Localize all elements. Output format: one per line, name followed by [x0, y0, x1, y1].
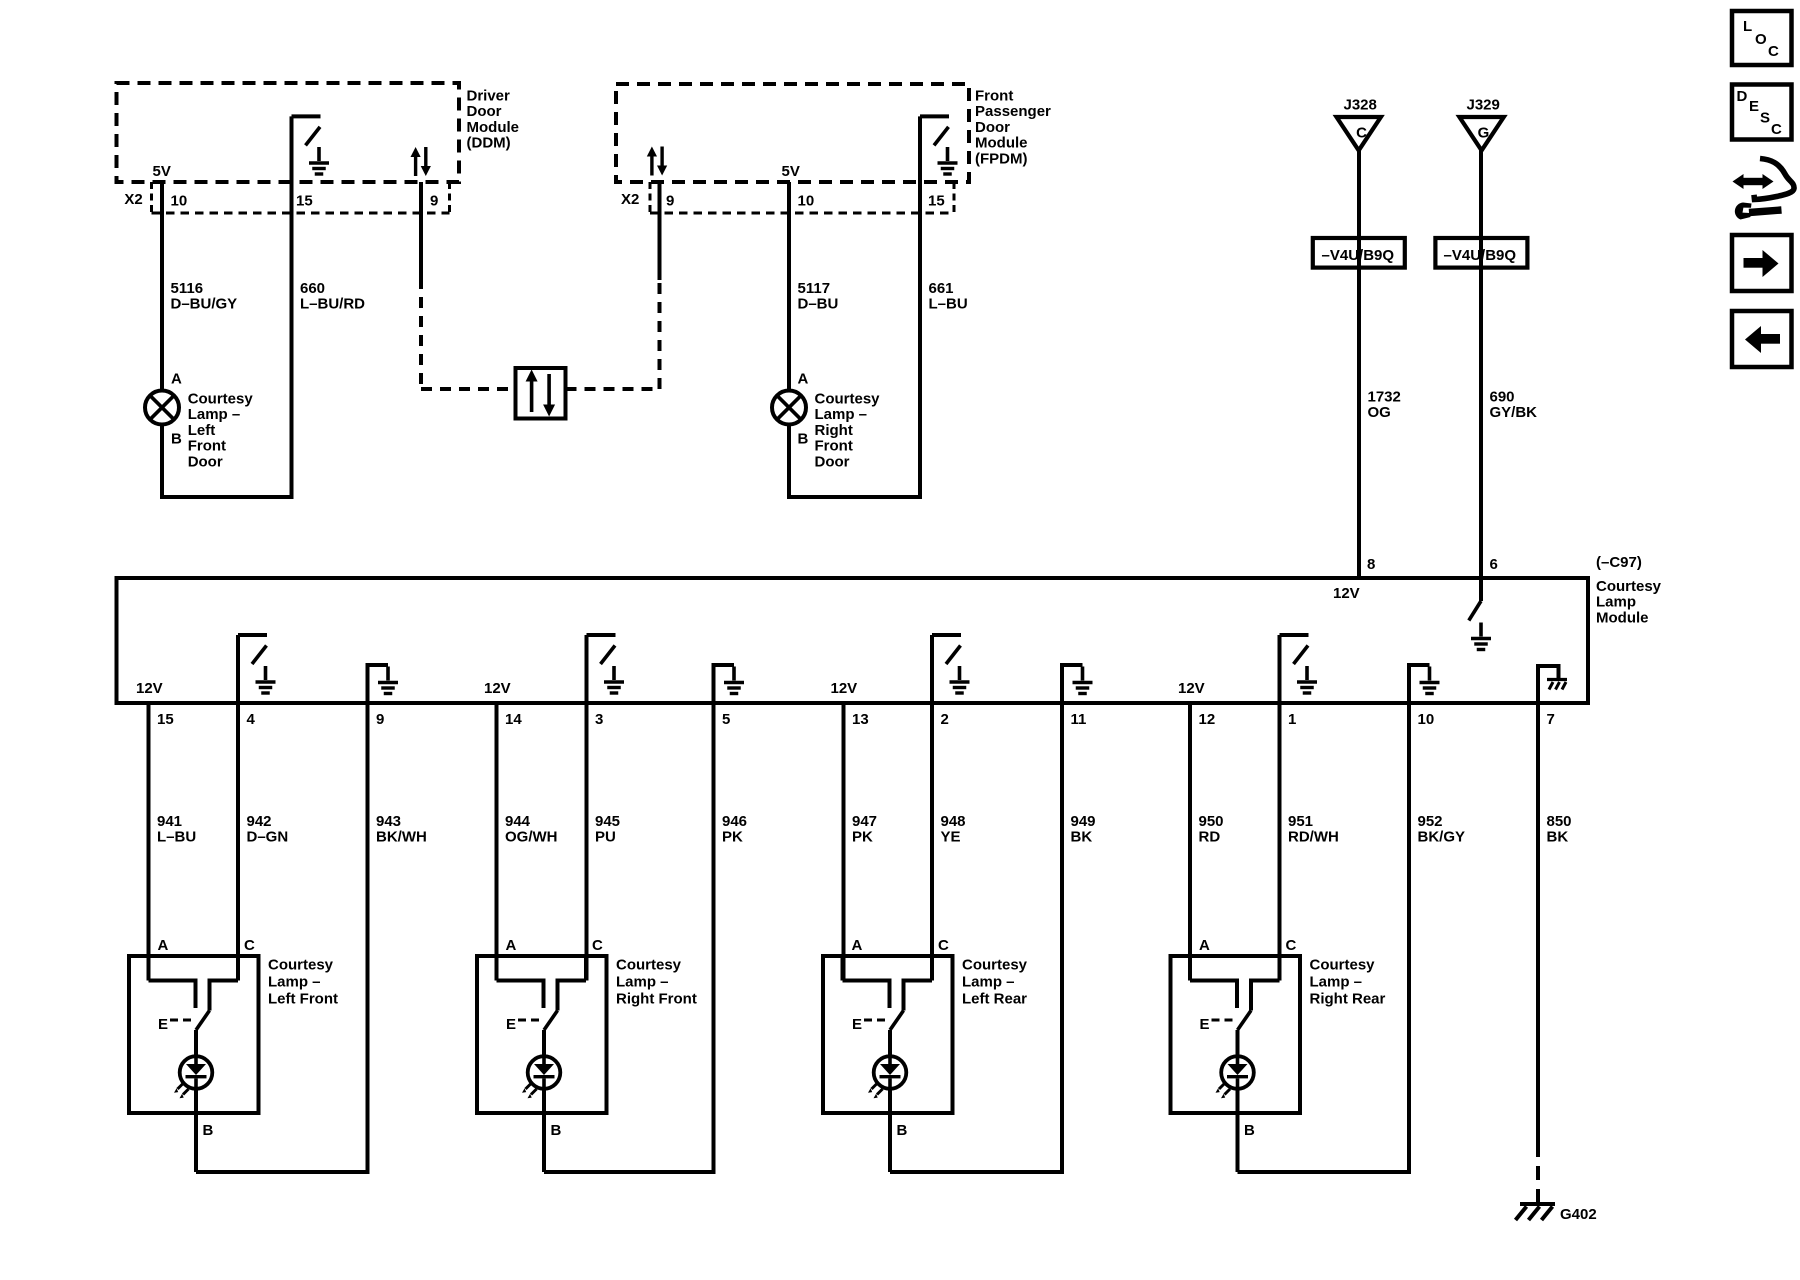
- svg-text:950RD: 950RD: [1199, 813, 1224, 846]
- courtesy lamp - left rear assembly (box, switch, LED): [823, 956, 953, 1172]
- svg-text:850BK: 850BK: [1547, 813, 1572, 846]
- svg-text:G: G: [1478, 125, 1490, 142]
- wire 948 YE from module pin: [930, 703, 934, 981]
- svg-text:9: 9: [666, 193, 674, 210]
- svg-text:C: C: [938, 937, 949, 954]
- svg-text:CourtesyLamp –LeftFrontDoor: CourtesyLamp –LeftFrontDoor: [188, 391, 254, 471]
- svg-text:10: 10: [171, 193, 188, 210]
- svg-text:CourtesyLamp –Right Rear: CourtesyLamp –Right Rear: [1310, 957, 1386, 1008]
- svg-text:15: 15: [157, 711, 174, 728]
- module FPDM (Front Passenger Door Module) dashed box: [616, 84, 969, 182]
- wire from J329 down to module pin 6: [1479, 150, 1483, 601]
- wire 850 BK from module pin 7 to G402: [1536, 703, 1540, 1143]
- switch to ground inside module at pin 1: [1280, 635, 1318, 703]
- courtesy lamp - right front assembly (box, switch, LED): [477, 956, 607, 1172]
- icon back arrow button: [1732, 311, 1792, 367]
- svg-text:941L–BU: 941L–BU: [157, 813, 196, 846]
- svg-text:CourtesyLamp –Left Rear: CourtesyLamp –Left Rear: [962, 957, 1028, 1008]
- svg-text:A: A: [798, 371, 809, 388]
- svg-text:5117D–BU: 5117D–BU: [798, 280, 839, 313]
- svg-text:10: 10: [798, 193, 815, 210]
- svg-text:8: 8: [1367, 556, 1375, 573]
- ground inside module at pin 5: [714, 665, 745, 703]
- svg-text:5: 5: [722, 711, 730, 728]
- svg-text:S: S: [1760, 110, 1770, 127]
- svg-text:946PK: 946PK: [722, 813, 747, 846]
- ground inside module at pin 9: [368, 665, 399, 703]
- up/down arrow box (window switch illumination node): [516, 368, 566, 419]
- up/down arrows inside DDM (pin 9 logic signal): [411, 147, 431, 176]
- svg-text:943BK/WH: 943BK/WH: [376, 813, 427, 846]
- up/down arrows inside FPDM (pin 9 logic signal): [647, 147, 667, 176]
- svg-text:661L–BU: 661L–BU: [929, 280, 968, 313]
- svg-text:952BK/GY: 952BK/GY: [1418, 813, 1466, 846]
- svg-text:7: 7: [1547, 711, 1555, 728]
- icon LOC button: [1732, 11, 1792, 65]
- wire 947 PK from module pin: [842, 703, 846, 981]
- svg-text:13: 13: [852, 711, 869, 728]
- ground G402 symbol: [1516, 1204, 1556, 1220]
- connector X2 of DDM (dashed bracket): [152, 182, 450, 214]
- wire 941 L-BU from module pin: [147, 703, 151, 981]
- svg-text:B: B: [1244, 1122, 1255, 1139]
- svg-text:11: 11: [1071, 711, 1087, 728]
- svg-text:690GY/BK: 690GY/BK: [1490, 389, 1538, 422]
- wire 950 RD from module pin: [1188, 703, 1192, 981]
- connector J328 triangle C: [1337, 117, 1381, 150]
- wire from lamp B up via 661 L-BU to FPDM pin 15: [789, 116, 920, 497]
- wire 5117 D-BU: FPDM pin 10 down to lamp A: [787, 182, 791, 391]
- svg-text:3: 3: [595, 711, 603, 728]
- svg-text:947PK: 947PK: [852, 813, 877, 846]
- connector X2 of FPDM (dashed bracket): [650, 182, 954, 214]
- connector J329 triangle G: [1459, 117, 1503, 150]
- svg-text:O: O: [1755, 31, 1767, 48]
- wire lamp left front B to ground wire: [196, 703, 368, 1172]
- ground inside module at pin 11: [1062, 665, 1093, 703]
- svg-text:951RD/WH: 951RD/WH: [1288, 813, 1339, 846]
- chassis ground inside module at pin 7: [1538, 666, 1567, 703]
- wire 952 BK/GY from module pin: [1407, 703, 1411, 1172]
- svg-text:J328: J328: [1344, 97, 1377, 114]
- wire 5116 D-BU/GY: DDM pin 10 down to lamp A: [160, 182, 164, 391]
- svg-text:L: L: [1743, 18, 1752, 35]
- svg-text:14: 14: [505, 711, 522, 728]
- wire to FPDM pin 9 (dashed then solid): [566, 387, 660, 391]
- svg-text:942D–GN: 942D–GN: [247, 813, 289, 846]
- svg-text:–V4U/B9Q: –V4U/B9Q: [1322, 247, 1395, 264]
- svg-text:B: B: [551, 1122, 562, 1139]
- svg-text:A: A: [171, 371, 182, 388]
- option box -V4U/B9Q (left): [1313, 238, 1405, 268]
- svg-text:9: 9: [376, 711, 384, 728]
- svg-text:B: B: [171, 431, 182, 448]
- svg-text:B: B: [897, 1122, 908, 1139]
- wire 946 PK from module pin: [712, 703, 716, 1172]
- svg-text:1: 1: [1288, 711, 1296, 728]
- svg-text:5116D–BU/GY: 5116D–BU/GY: [171, 280, 238, 313]
- svg-text:C: C: [1286, 937, 1297, 954]
- svg-text:5V: 5V: [153, 163, 171, 180]
- door switch to ground inside DDM: [292, 116, 330, 174]
- svg-text:E: E: [1749, 98, 1759, 115]
- switch to ground inside module at pin 3: [587, 635, 625, 703]
- svg-text:2: 2: [941, 711, 949, 728]
- svg-text:6: 6: [1490, 556, 1498, 573]
- icon wrench with arrows (repair instructions): [1733, 159, 1795, 220]
- svg-text:A: A: [158, 937, 169, 954]
- svg-text:15: 15: [296, 193, 313, 210]
- svg-text:5V: 5V: [782, 163, 800, 180]
- svg-text:D: D: [1737, 88, 1748, 105]
- svg-text:B: B: [798, 431, 809, 448]
- courtesy lamp - left front door (bulb symbol): [145, 391, 179, 425]
- courtesy lamp - left front assembly (box, switch, LED): [129, 956, 259, 1172]
- wire 951 RD/WH from module pin: [1278, 703, 1282, 981]
- wire lamp right rear B to ground wire: [1238, 703, 1410, 1172]
- svg-text:12V: 12V: [1333, 585, 1360, 602]
- svg-text:15: 15: [928, 193, 945, 210]
- wire 942 D-GN from module pin: [236, 703, 240, 981]
- svg-text:G402: G402: [1560, 1206, 1597, 1223]
- svg-text:948YE: 948YE: [941, 813, 966, 846]
- wire 945 PU from module pin: [585, 703, 589, 981]
- wire lamp left rear B to ground wire: [890, 703, 1062, 1172]
- wire 943 BK/WH from module pin: [366, 703, 370, 1172]
- svg-text:949BK: 949BK: [1071, 813, 1096, 846]
- svg-text:12: 12: [1199, 711, 1216, 728]
- svg-text:A: A: [506, 937, 517, 954]
- switch and ground inside module at pin 6: [1469, 601, 1491, 650]
- wire lamp right front B to ground wire: [544, 703, 714, 1172]
- wire 944 OG/WH from module pin: [495, 703, 499, 981]
- svg-text:A: A: [1199, 937, 1210, 954]
- svg-text:12V: 12V: [1178, 680, 1205, 697]
- svg-text:–V4U/B9Q: –V4U/B9Q: [1444, 247, 1517, 264]
- svg-text:FrontPassengerDoorModule(FPDM): FrontPassengerDoorModule(FPDM): [975, 88, 1051, 168]
- svg-text:4: 4: [247, 711, 256, 728]
- svg-text:9: 9: [430, 193, 438, 210]
- ground inside module at pin 10: [1409, 665, 1440, 703]
- wire 949 BK from module pin: [1060, 703, 1064, 1172]
- svg-text:C: C: [1771, 121, 1782, 138]
- wire from J328 down to module pin 8: [1357, 150, 1361, 578]
- svg-text:B: B: [203, 1122, 214, 1139]
- svg-text:12V: 12V: [484, 680, 511, 697]
- svg-text:CourtesyLampModule: CourtesyLampModule: [1596, 578, 1662, 626]
- door switch to ground inside FPDM: [920, 116, 958, 174]
- courtesy lamp - right rear assembly (box, switch, LED): [1171, 956, 1301, 1172]
- svg-text:X2: X2: [124, 191, 142, 208]
- switch to ground inside module at pin 2: [932, 635, 970, 703]
- svg-text:A: A: [852, 937, 863, 954]
- svg-text:X2: X2: [621, 191, 639, 208]
- wire DDM pin 9 (solid then dashed): [419, 182, 423, 280]
- svg-text:(–C97): (–C97): [1596, 554, 1642, 571]
- svg-text:C: C: [592, 937, 603, 954]
- svg-text:12V: 12V: [136, 680, 163, 697]
- svg-text:1732OG: 1732OG: [1368, 389, 1401, 422]
- module (-C97) Courtesy Lamp Module box: [117, 578, 1589, 703]
- svg-text:C: C: [1356, 125, 1367, 142]
- courtesy lamp - right front door (bulb symbol): [772, 391, 806, 425]
- svg-text:J329: J329: [1467, 97, 1500, 114]
- svg-text:12V: 12V: [831, 680, 858, 697]
- svg-text:CourtesyLamp –Right Front: CourtesyLamp –Right Front: [616, 957, 697, 1008]
- icon DESC button: [1732, 85, 1792, 140]
- svg-text:CourtesyLamp –Left Front: CourtesyLamp –Left Front: [268, 957, 338, 1008]
- svg-text:660L–BU/RD: 660L–BU/RD: [300, 280, 365, 313]
- wire from lamp B up via 660 L-BU/RD to DDM pin 15: [162, 116, 292, 497]
- svg-text:10: 10: [1418, 711, 1435, 728]
- option box -V4U/B9Q (right): [1435, 238, 1527, 268]
- icon forward arrow button: [1732, 235, 1792, 291]
- switch to ground inside module at pin 4: [238, 635, 276, 703]
- svg-text:C: C: [1768, 43, 1779, 60]
- svg-text:944OG/WH: 944OG/WH: [505, 813, 558, 846]
- svg-text:CourtesyLamp –RightFrontDoor: CourtesyLamp –RightFrontDoor: [815, 391, 881, 471]
- svg-text:DriverDoorModule(DDM): DriverDoorModule(DDM): [467, 88, 520, 152]
- svg-text:945PU: 945PU: [595, 813, 620, 846]
- module DDM (Driver Door Module) dashed box: [117, 83, 460, 182]
- svg-text:C: C: [244, 937, 255, 954]
